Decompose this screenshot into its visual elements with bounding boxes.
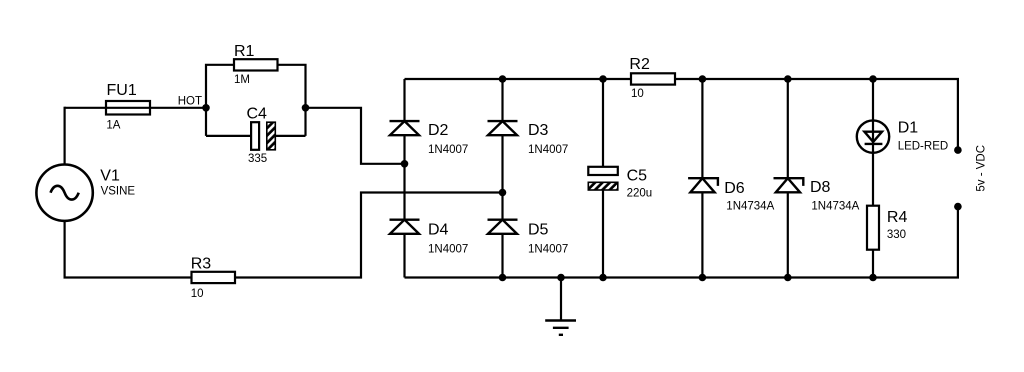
wire: C4 right plate feed: [275, 135, 306, 137]
svg-text:330: 330: [887, 229, 906, 241]
ground: [545, 278, 576, 335]
svg-text:1N4734A: 1N4734A: [811, 201, 859, 213]
wire: top rail with right-edge drop to + terminal: [405, 79, 958, 150]
wire: AC1 link from R1/C4 to bridge (right, down, right): [306, 108, 405, 164]
node: bottom rail junction at D5 column: [499, 274, 507, 282]
node: top rail junction at D3 column: [499, 75, 507, 83]
wire: R1/C4 parallel loop (left vertical, top run, right vertical): [206, 65, 306, 136]
svg-text:10: 10: [631, 88, 644, 100]
zener diode D8: [774, 178, 860, 212]
resistor R4: [867, 206, 907, 250]
wire: bridge column 1 (D2/D4) vertical: [403, 79, 405, 278]
svg-text:1N4734A: 1N4734A: [726, 201, 774, 213]
svg-text:LED-RED: LED-RED: [898, 141, 948, 153]
node HOT: [178, 96, 210, 112]
node: R1/C4 right junction: [302, 104, 310, 112]
node: bottom rail junction at D6 column: [699, 274, 707, 282]
wire: C5 column lower segment: [602, 186, 604, 278]
output terminal -: [954, 203, 962, 211]
node: bottom rail junction at C5 column: [599, 274, 607, 282]
wire: D8 column vertical: [787, 79, 789, 278]
svg-text:10: 10: [191, 288, 204, 300]
diode D2: [390, 121, 469, 156]
LED D1: [857, 120, 948, 153]
node: bottom rail junction at ground tap: [557, 274, 565, 282]
svg-text:V1: V1: [100, 168, 120, 185]
svg-text:335: 335: [248, 153, 267, 165]
svg-text:220u: 220u: [627, 188, 653, 200]
capacitor C5: [588, 167, 652, 200]
svg-text:HOT: HOT: [178, 96, 202, 108]
node: top rail junction at D6 column: [699, 75, 707, 83]
svg-text:C5: C5: [627, 168, 648, 185]
wire: V1 bottom down, along bottom to x=361, up, and across to bridge AC2 node: [65, 193, 503, 278]
wire: D6 column vertical: [701, 79, 703, 278]
svg-text:1N4007: 1N4007: [528, 244, 568, 256]
svg-text:1N4007: 1N4007: [428, 144, 468, 156]
svg-text:VSINE: VSINE: [101, 186, 136, 198]
wire: C4 left plate feed: [206, 135, 252, 137]
diode D3: [488, 121, 569, 156]
svg-text:FU1: FU1: [107, 82, 137, 99]
zener diode D6: [688, 178, 774, 212]
node: top rail junction at D1 column: [869, 75, 877, 83]
node: top rail junction at D8 column: [784, 75, 792, 83]
node: AC1 junction on bridge column 1: [401, 160, 409, 168]
node: AC2 junction on bridge column 2: [499, 189, 507, 197]
wire: bridge column 2 (D3/D5) vertical: [501, 79, 503, 278]
fuse FU1: [106, 82, 150, 132]
diode D5: [488, 220, 569, 256]
node: top rail junction at C5 column: [599, 75, 607, 83]
svg-text:5v - VDC: 5v - VDC: [975, 145, 987, 192]
svg-text:R2: R2: [629, 56, 650, 73]
capacitor C4: [247, 106, 276, 166]
wire: C5 column upper segment: [602, 79, 604, 170]
svg-text:R4: R4: [887, 209, 908, 226]
svg-text:D5: D5: [528, 222, 549, 239]
resistor R2: [629, 56, 675, 100]
wire: D1/R4 column vertical: [872, 79, 874, 278]
wire: bottom rail with right-edge rise to - terminal: [405, 207, 958, 278]
svg-text:D8: D8: [810, 179, 831, 196]
svg-text:D2: D2: [428, 122, 449, 139]
svg-text:C4: C4: [247, 106, 268, 123]
wire: left vertical from hot wire down to V1 top: [63, 107, 65, 165]
svg-text:1N4007: 1N4007: [428, 244, 468, 256]
node: bottom rail junction at R4 column: [869, 274, 877, 282]
svg-text:D1: D1: [898, 120, 919, 137]
svg-text:R1: R1: [234, 43, 255, 60]
output terminal + (5v): [954, 146, 962, 154]
svg-text:D6: D6: [724, 180, 745, 197]
wire: fuse feed horizontal (AC hot from V1 to HOT node): [65, 107, 206, 109]
resistor R1: [234, 43, 278, 86]
svg-text:D4: D4: [428, 222, 449, 239]
svg-text:1A: 1A: [106, 120, 120, 132]
voltage source V1: [36, 165, 135, 221]
svg-text:1N4007: 1N4007: [528, 144, 568, 156]
svg-text:1M: 1M: [234, 74, 250, 86]
svg-text:R3: R3: [191, 256, 212, 273]
diode D4: [390, 220, 469, 256]
svg-text:D3: D3: [528, 122, 549, 139]
node: bottom rail junction at D8 column: [784, 274, 792, 282]
resistor R3: [191, 256, 235, 301]
